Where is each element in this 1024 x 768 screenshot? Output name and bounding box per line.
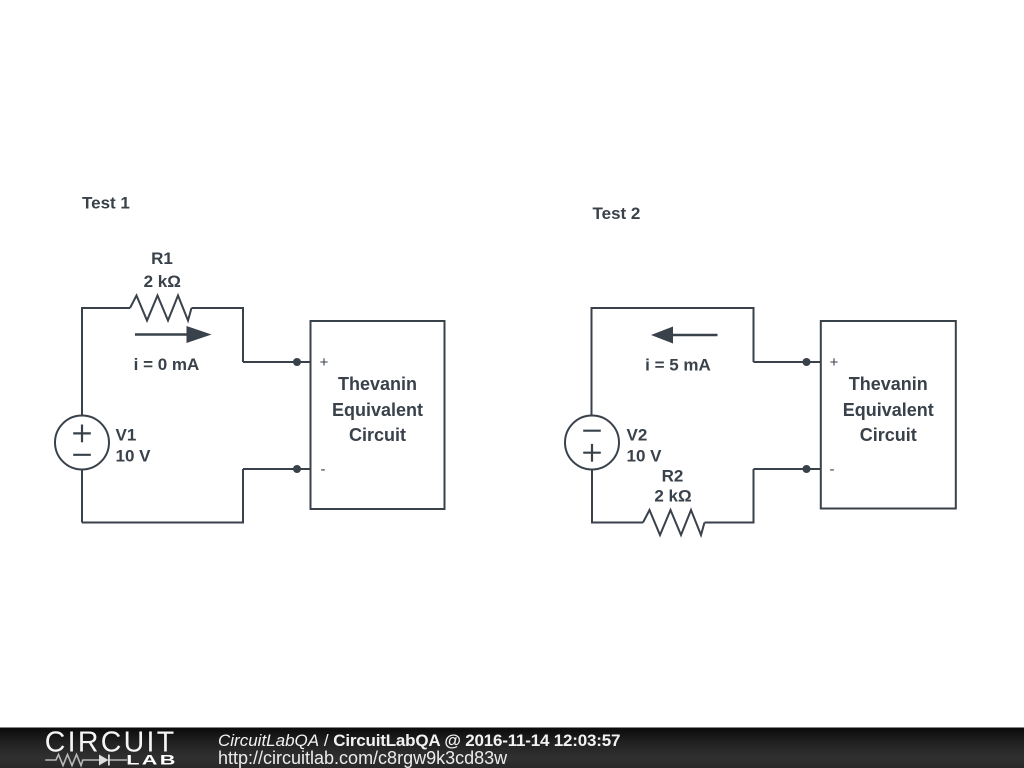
junction node: Test2 + terminal bbox=[803, 358, 811, 366]
voltage source V2 (reversed) bbox=[565, 416, 619, 470]
footer bar bbox=[0, 728, 1024, 768]
wire: Test1 left vertical from V1 bottom bbox=[81, 470, 83, 523]
svg-text:Test 2: Test 2 bbox=[593, 204, 641, 223]
svg-text:-: - bbox=[321, 461, 326, 478]
svg-text:Thevanin: Thevanin bbox=[849, 374, 928, 394]
resistor R1 bbox=[130, 296, 192, 321]
wire: Test1 bottom horizontal bbox=[82, 522, 243, 524]
svg-text:R2: R2 bbox=[662, 467, 684, 486]
footer logo LAB wordmark bbox=[126, 751, 178, 767]
wire: Test2 horizontal into box + terminal bbox=[754, 361, 822, 363]
wire: Test2 right vertical drop to + terminal bbox=[753, 307, 755, 362]
svg-text:Test 1: Test 1 bbox=[82, 194, 130, 213]
wire: Test1 top right horizontal after R1 bbox=[192, 307, 244, 309]
svg-text:10 V: 10 V bbox=[627, 447, 663, 466]
junction node: Test2 - terminal bbox=[803, 465, 811, 473]
box label: Thevanin Equivalent Circuit (Test 2) bbox=[843, 374, 934, 445]
svg-text:i = 0 mA: i = 0 mA bbox=[134, 355, 200, 374]
svg-text:V2: V2 bbox=[627, 426, 648, 445]
svg-text:Circuit: Circuit bbox=[860, 425, 917, 445]
svg-text:2 kΩ: 2 kΩ bbox=[654, 487, 691, 506]
svg-text:+: + bbox=[320, 354, 329, 371]
svg-text:Equivalent: Equivalent bbox=[843, 400, 934, 420]
box label: Thevanin Equivalent Circuit (Test 1) bbox=[332, 374, 423, 445]
svg-text:Circuit: Circuit bbox=[349, 425, 406, 445]
wire: Test1 right vertical rise to - terminal bbox=[242, 469, 244, 524]
svg-text:-: - bbox=[830, 461, 835, 478]
wire: Test1 left vertical from top wire to V1 top bbox=[81, 307, 83, 415]
wire: Test2 left vertical from V2 bottom bbox=[591, 470, 593, 523]
svg-text:LAB: LAB bbox=[126, 751, 178, 767]
Thevenin box (Test 1) bbox=[311, 321, 445, 509]
svg-text:10 V: 10 V bbox=[116, 447, 152, 466]
wire: Test2 top horizontal bbox=[592, 307, 754, 309]
wire: Test1 horizontal into box - terminal bbox=[243, 468, 311, 470]
wire: Test2 left vertical from top wire to V2 top bbox=[591, 307, 593, 416]
wire: Test1 top-left horizontal from source to resistor bbox=[82, 307, 130, 309]
current arrow i (Test 1, pointing right) bbox=[135, 326, 212, 343]
current arrow i (Test 2, pointing left) bbox=[651, 327, 718, 344]
svg-text:+: + bbox=[830, 354, 839, 371]
footer logo resistor-diode line art bbox=[45, 755, 127, 766]
svg-text:2 kΩ: 2 kΩ bbox=[144, 272, 181, 291]
voltage source V1 bbox=[55, 416, 109, 470]
wire: Test2 bottom horizontal to R2 bbox=[591, 522, 643, 524]
wire: Test1 right vertical drop to + terminal bbox=[242, 307, 244, 362]
wire: Test2 right vertical rise to - terminal bbox=[753, 469, 755, 524]
svg-text:R1: R1 bbox=[151, 249, 173, 268]
svg-text:http://circuitlab.com/c8rgw9k3: http://circuitlab.com/c8rgw9k3cd83w bbox=[218, 748, 508, 768]
wire: Test1 horizontal into box + terminal bbox=[243, 361, 311, 363]
svg-text:i = 5 mA: i = 5 mA bbox=[645, 356, 711, 375]
wire: Test2 bottom horizontal after R2 bbox=[705, 522, 754, 524]
wire: Test2 horizontal into box - terminal bbox=[754, 468, 822, 470]
svg-text:V1: V1 bbox=[116, 426, 137, 445]
junction node: Test1 + terminal bbox=[293, 358, 301, 366]
junction node: Test1 - terminal bbox=[293, 465, 301, 473]
svg-text:Equivalent: Equivalent bbox=[332, 400, 423, 420]
resistor R2 bbox=[643, 510, 705, 535]
Thevenin box (Test 2) bbox=[821, 321, 956, 509]
svg-text:Thevanin: Thevanin bbox=[338, 374, 417, 394]
